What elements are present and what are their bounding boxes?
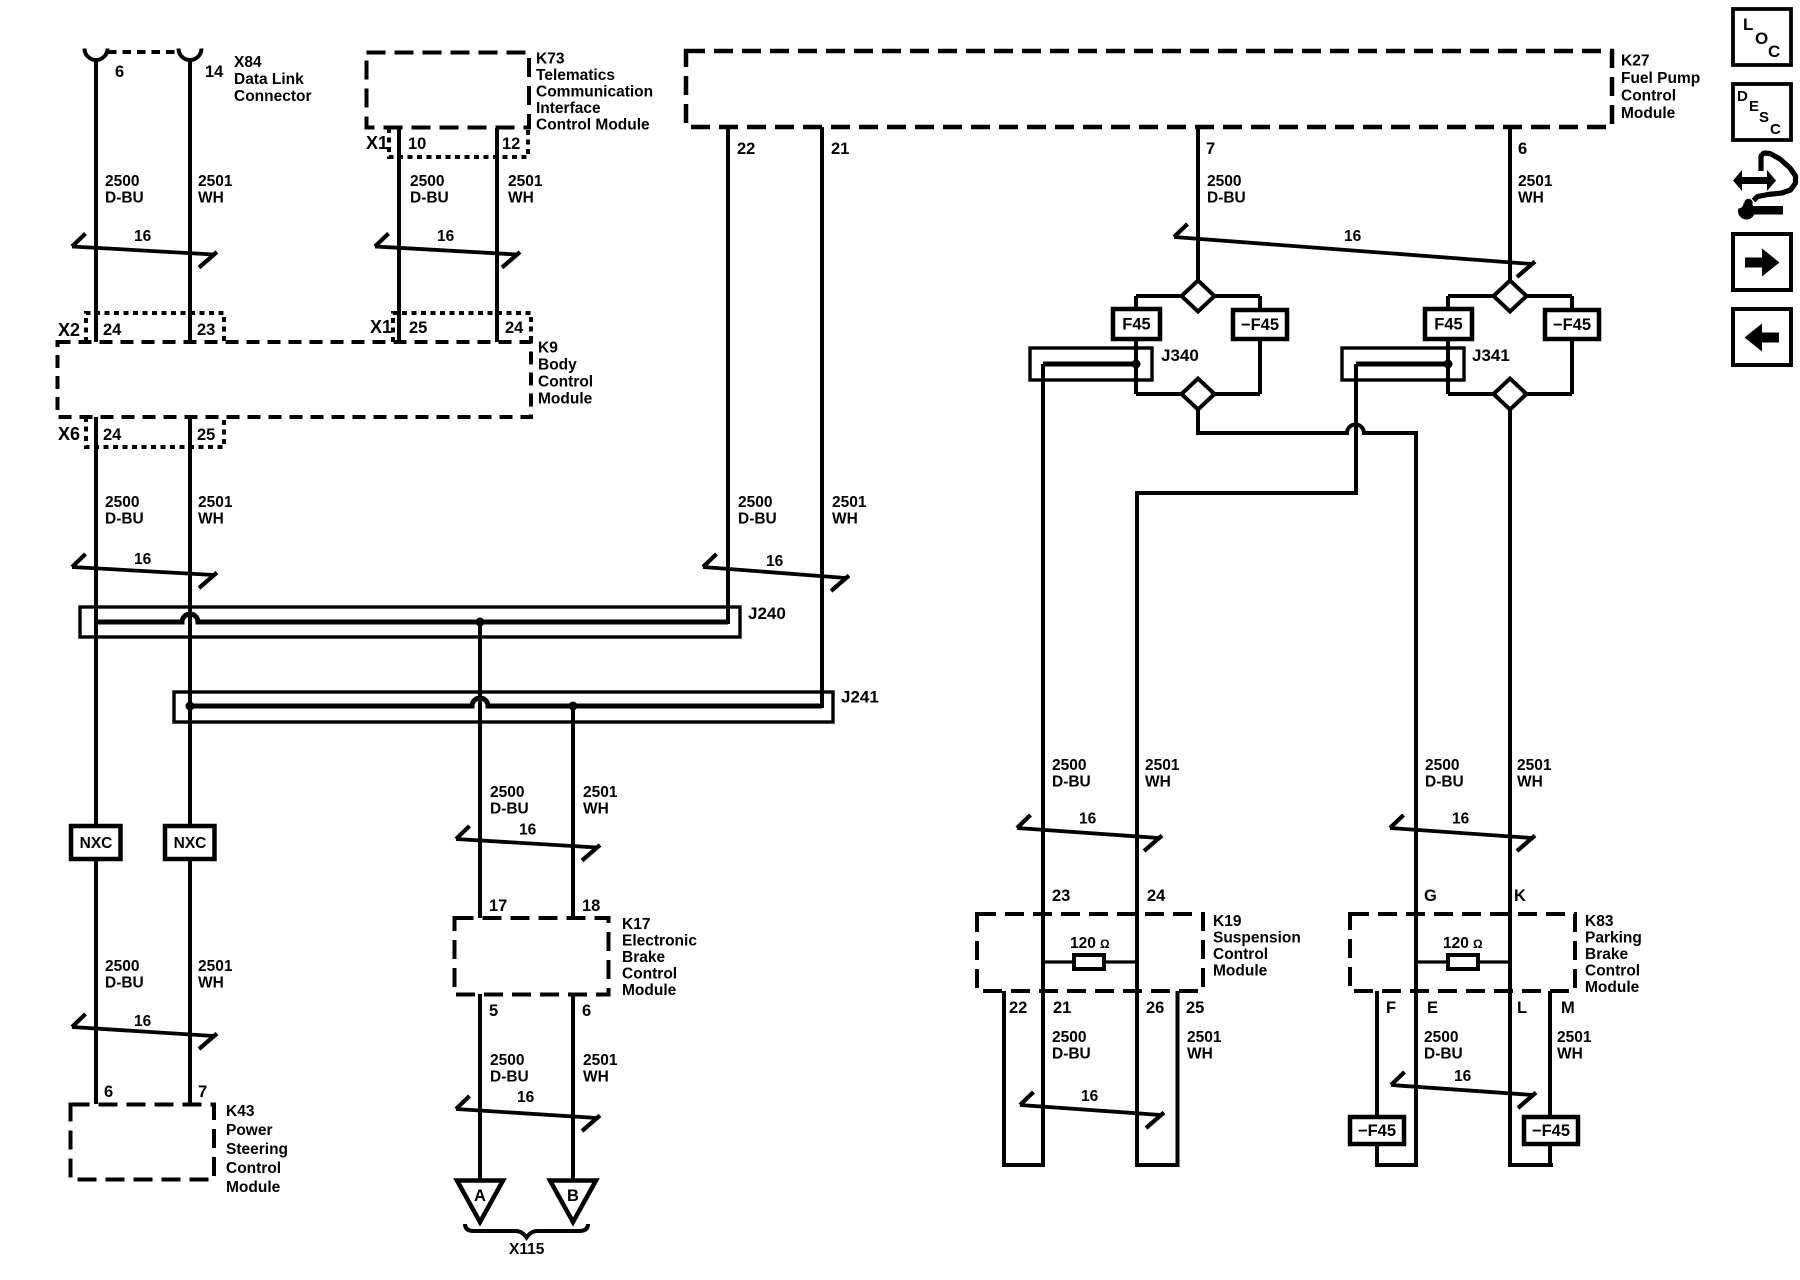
- wire 2500 D-BU X84-6 to K9 X2-24: [94, 61, 98, 342]
- svg-text:S: S: [1759, 109, 1769, 126]
- svg-text:2501: 2501: [1518, 173, 1553, 190]
- svg-text:2500: 2500: [490, 784, 524, 801]
- icon DESC: [1733, 84, 1791, 140]
- fuse F45: [1425, 309, 1472, 339]
- svg-text:17: 17: [489, 897, 507, 915]
- node diamond J341 bottom: [1494, 379, 1527, 410]
- svg-text:25: 25: [1186, 999, 1204, 1017]
- svg-text:2500: 2500: [105, 494, 139, 511]
- svg-text:A: A: [474, 1187, 486, 1205]
- gauge 16 marker: [1017, 811, 1162, 852]
- icon serial data communication: [1733, 153, 1796, 220]
- gauge 16 marker: [1390, 811, 1535, 852]
- svg-text:Interface: Interface: [536, 100, 601, 117]
- gauge 16 marker: [456, 1089, 600, 1131]
- resistor 120 ohm in K83: [1416, 935, 1510, 969]
- svg-text:K: K: [1514, 887, 1526, 905]
- svg-text:Telematics: Telematics: [536, 67, 615, 84]
- fuse -F45: [1545, 310, 1599, 339]
- svg-text:K43: K43: [226, 1103, 255, 1120]
- svg-text:Brake: Brake: [622, 949, 665, 966]
- icon arrow right: [1733, 234, 1791, 290]
- svg-text:F: F: [1386, 999, 1396, 1017]
- svg-text:Electronic: Electronic: [622, 933, 697, 950]
- svg-text:16: 16: [134, 228, 152, 245]
- svg-text:16: 16: [437, 228, 455, 245]
- svg-text:Steering: Steering: [226, 1141, 288, 1158]
- svg-text:Control: Control: [622, 966, 677, 983]
- svg-text:16: 16: [519, 822, 537, 839]
- module K19 Suspension Control Module: [977, 913, 1301, 991]
- module K17 Electronic Brake Control Module: [455, 916, 698, 999]
- label wire 2501 WH: [198, 494, 233, 528]
- svg-text:24: 24: [505, 319, 524, 337]
- wire K19-26 loop: [1135, 962, 1139, 1165]
- svg-text:Module: Module: [226, 1179, 281, 1196]
- svg-text:25: 25: [409, 319, 427, 337]
- svg-text:2501: 2501: [1187, 1029, 1222, 1046]
- svg-text:Module: Module: [1213, 963, 1268, 980]
- svg-text:WH: WH: [198, 190, 224, 207]
- svg-text:24: 24: [103, 426, 122, 444]
- svg-text:24: 24: [1147, 887, 1166, 905]
- wire stub K19-25: [1176, 991, 1180, 1165]
- svg-text:J240: J240: [748, 604, 786, 623]
- connector X115 brace: [465, 1224, 588, 1258]
- svg-text:WH: WH: [1187, 1046, 1213, 1063]
- svg-text:Data Link: Data Link: [234, 71, 304, 88]
- svg-text:2500: 2500: [1425, 757, 1459, 774]
- svg-text:WH: WH: [832, 511, 858, 528]
- connector X1 of K9: [370, 313, 531, 342]
- label wire 2501 WH: [583, 1052, 618, 1086]
- svg-text:2500: 2500: [738, 494, 772, 511]
- svg-text:WH: WH: [198, 975, 224, 992]
- splice pack J341 bus: [1342, 346, 1510, 380]
- svg-text:2501: 2501: [1517, 757, 1552, 774]
- gauge 16 marker: [375, 228, 520, 268]
- module K43 Power Steering Control Module: [71, 1103, 289, 1196]
- wire loop bottom F-E: [1375, 1163, 1418, 1167]
- label wire 2501 WH: [1518, 173, 1553, 207]
- svg-text:X1: X1: [366, 133, 388, 153]
- label wire 2500 D-BU: [1052, 1029, 1091, 1063]
- svg-text:WH: WH: [1145, 774, 1171, 791]
- in-line connector NXC on 2501 WH: [165, 826, 215, 859]
- label wire 2501 WH: [832, 494, 867, 528]
- fuse F45: [1113, 309, 1160, 339]
- svg-text:2500: 2500: [1052, 757, 1086, 774]
- svg-text:M: M: [1561, 999, 1575, 1017]
- gauge 16 marker: [72, 228, 217, 268]
- label wire 2501 WH: [198, 173, 233, 207]
- wire 2500 D-BU K17-5 to X115-A: [478, 994, 482, 1181]
- svg-text:G: G: [1424, 887, 1437, 905]
- svg-text:14: 14: [205, 63, 224, 81]
- svg-text:16: 16: [1454, 1068, 1472, 1085]
- svg-text:K9: K9: [538, 340, 558, 357]
- wire below -F45 right: [1548, 1144, 1552, 1165]
- wire loop bottom 22-21: [1002, 1163, 1045, 1167]
- svg-text:Ω: Ω: [1473, 937, 1483, 951]
- node diamond J340 bottom: [1182, 379, 1215, 410]
- svg-text:16: 16: [134, 1013, 152, 1030]
- svg-text:D-BU: D-BU: [1052, 1046, 1091, 1063]
- svg-text:6: 6: [115, 63, 124, 81]
- svg-text:X2: X2: [58, 320, 80, 340]
- svg-text:16: 16: [134, 551, 152, 568]
- svg-text:22: 22: [737, 140, 755, 158]
- svg-text:Control: Control: [1621, 88, 1676, 105]
- svg-text:21: 21: [831, 140, 849, 158]
- svg-text:6: 6: [1518, 140, 1527, 158]
- connector X2 of K9: [58, 313, 224, 342]
- splice pack J340 bus: [1030, 346, 1199, 380]
- module K83 Parking Brake Control Module: [1350, 913, 1642, 996]
- svg-text:−F45: −F45: [1532, 1122, 1570, 1140]
- svg-text:2501: 2501: [198, 494, 233, 511]
- svg-text:F45: F45: [1122, 316, 1150, 334]
- svg-text:24: 24: [103, 321, 122, 339]
- wire K19-21 loop: [1041, 962, 1045, 1165]
- svg-text:L: L: [1517, 999, 1527, 1017]
- gauge 16 marker: [703, 553, 849, 591]
- svg-text:Module: Module: [622, 982, 677, 999]
- label wire 2500 D-BU: [490, 784, 529, 818]
- label wire 2501 WH: [508, 173, 543, 207]
- fuse -F45 left: [1350, 1117, 1404, 1144]
- svg-text:2500: 2500: [105, 173, 139, 190]
- svg-text:C: C: [1770, 121, 1781, 138]
- svg-text:Ω: Ω: [1100, 937, 1110, 951]
- svg-text:E: E: [1749, 98, 1759, 115]
- svg-text:X115: X115: [509, 1241, 545, 1258]
- svg-text:23: 23: [1052, 887, 1070, 905]
- svg-text:−F45: −F45: [1241, 316, 1279, 334]
- splice J341 ring with fuse F45: [1448, 296, 1572, 394]
- wire stub K83-M: [1548, 991, 1552, 1117]
- wire 2500 D-BU K9 X6-24 to K43-6: [94, 417, 98, 826]
- label wire 2500 D-BU: [105, 958, 144, 992]
- svg-text:X6: X6: [58, 424, 80, 444]
- wire 2501 WH J241 to K17-18: [571, 706, 575, 918]
- svg-text:2500: 2500: [1207, 173, 1241, 190]
- svg-text:2500: 2500: [1052, 1029, 1086, 1046]
- svg-text:−F45: −F45: [1553, 316, 1591, 334]
- wire stub K19-22: [1002, 991, 1006, 1165]
- svg-text:O: O: [1755, 29, 1768, 48]
- svg-text:K73: K73: [536, 51, 565, 68]
- wire below -F45 left: [1375, 1144, 1379, 1165]
- svg-text:6: 6: [104, 1083, 113, 1101]
- svg-text:16: 16: [1452, 811, 1470, 828]
- module K73 Telematics Communication Interface Control Module: [367, 51, 654, 134]
- svg-text:L: L: [1743, 15, 1753, 34]
- svg-text:Module: Module: [1585, 979, 1640, 996]
- module K27 Fuel Pump Control Module: [686, 51, 1700, 127]
- wire 2501 WH J341 to K83-K: [1508, 409, 1512, 962]
- wire 2500 D-BU K27-7 to J340: [1196, 127, 1200, 282]
- connector X1 of K73: [366, 128, 528, 157]
- svg-text:WH: WH: [583, 1069, 609, 1086]
- svg-text:22: 22: [1009, 999, 1027, 1017]
- label wire 2500 D-BU: [1207, 173, 1246, 207]
- wire stub K83-F: [1375, 991, 1379, 1117]
- connector X84 Data Link Connector: [85, 49, 312, 106]
- svg-text:2500: 2500: [105, 958, 139, 975]
- gauge 16 marker: [72, 1013, 217, 1049]
- svg-text:WH: WH: [583, 801, 609, 818]
- svg-text:12: 12: [502, 135, 520, 153]
- label wire 2500 D-BU: [410, 173, 449, 207]
- terminal A of X115: [457, 1181, 503, 1223]
- svg-text:2500: 2500: [1424, 1029, 1458, 1046]
- svg-text:Module: Module: [538, 391, 593, 408]
- svg-text:21: 21: [1053, 999, 1071, 1017]
- svg-text:Connector: Connector: [234, 88, 312, 105]
- in-line connector NXC on 2500 D-BU: [71, 826, 121, 859]
- gauge 16 marker: [1391, 1068, 1536, 1108]
- svg-text:Control Module: Control Module: [536, 117, 650, 134]
- svg-text:2501: 2501: [583, 1052, 618, 1069]
- svg-text:X1: X1: [370, 317, 392, 337]
- svg-text:D-BU: D-BU: [105, 975, 144, 992]
- svg-text:2501: 2501: [832, 494, 867, 511]
- fuse -F45 right: [1524, 1117, 1578, 1144]
- label wire 2501 WH: [1145, 757, 1180, 791]
- svg-text:7: 7: [1206, 140, 1215, 158]
- svg-text:2501: 2501: [1557, 1029, 1592, 1046]
- svg-text:23: 23: [197, 321, 215, 339]
- svg-text:C: C: [1768, 42, 1780, 61]
- gauge 16 marker: [1020, 1088, 1164, 1128]
- svg-text:2501: 2501: [198, 173, 233, 190]
- svg-text:6: 6: [582, 1002, 591, 1020]
- connector X6 of K9: [58, 417, 224, 447]
- svg-text:WH: WH: [508, 190, 534, 207]
- svg-text:D-BU: D-BU: [105, 511, 144, 528]
- svg-text:K19: K19: [1213, 913, 1242, 930]
- gauge 16 marker: [1174, 224, 1535, 277]
- label wire 2501 WH: [1187, 1029, 1222, 1063]
- svg-text:NXC: NXC: [80, 835, 113, 852]
- label wire 2500 D-BU: [105, 494, 144, 528]
- svg-text:16: 16: [1081, 1088, 1099, 1105]
- node diamond J341 top: [1494, 281, 1527, 312]
- svg-text:D-BU: D-BU: [1424, 1046, 1463, 1063]
- svg-text:Body: Body: [538, 357, 577, 374]
- wire 2500 D-BU J340 bus to K19-23: [1041, 364, 1045, 962]
- svg-text:16: 16: [1344, 228, 1362, 245]
- svg-text:E: E: [1427, 999, 1438, 1017]
- wire K83-L to loop: [1508, 962, 1512, 1165]
- icon arrow left: [1733, 309, 1791, 365]
- splice J340 ring with fuse F45: [1136, 296, 1260, 394]
- svg-text:D-BU: D-BU: [738, 511, 777, 528]
- svg-text:Module: Module: [1621, 105, 1676, 122]
- gauge 16 marker: [72, 551, 217, 588]
- wire K83-E to loop: [1414, 962, 1418, 1165]
- svg-text:10: 10: [408, 135, 426, 153]
- label wire 2501 WH: [583, 784, 618, 818]
- label wire 2501 WH: [198, 958, 233, 992]
- svg-text:J340: J340: [1161, 346, 1199, 365]
- resistor 120 ohm in K19: [1043, 935, 1137, 969]
- svg-text:120: 120: [1070, 935, 1096, 952]
- svg-text:WH: WH: [198, 511, 224, 528]
- svg-text:16: 16: [517, 1089, 535, 1106]
- svg-text:5: 5: [489, 1002, 498, 1020]
- svg-text:Parking: Parking: [1585, 930, 1642, 947]
- svg-text:J341: J341: [1472, 346, 1510, 365]
- wire 2500 D-BU K73 X1-10 to K9 X1-25: [397, 128, 401, 342]
- svg-text:Suspension: Suspension: [1213, 930, 1301, 947]
- wire 2501 WH K9 X6-25 to K43-7: [188, 417, 192, 826]
- svg-text:D-BU: D-BU: [490, 801, 529, 818]
- wire 2500 D-BU J340 to K83-G: [1198, 409, 1416, 962]
- svg-text:D-BU: D-BU: [1425, 774, 1464, 791]
- label wire 2501 WH: [1517, 757, 1552, 791]
- wire 2500 D-BU K27-22 to J240: [726, 127, 730, 624]
- wire loop bottom L-M: [1508, 1163, 1553, 1167]
- node diamond J340 top: [1182, 281, 1215, 312]
- svg-text:Control: Control: [1213, 946, 1268, 963]
- svg-text:Control: Control: [226, 1160, 281, 1177]
- label wire 2500 D-BU: [490, 1052, 529, 1086]
- svg-text:K27: K27: [1621, 53, 1649, 70]
- svg-text:X84: X84: [234, 54, 262, 71]
- svg-text:WH: WH: [1517, 774, 1543, 791]
- wire 2501 WH K73 X1-12 to K9 X1-24: [495, 128, 499, 342]
- wire 2501 WH K17-6 to X115-B: [571, 994, 575, 1181]
- wire 2501 WH J341 bus to K19-24: [1137, 364, 1356, 962]
- label wire 2500 D-BU: [105, 173, 144, 207]
- wire 2501 WH K27-6 to J341: [1508, 127, 1512, 282]
- icon LOC: [1733, 9, 1791, 65]
- svg-text:Fuel Pump: Fuel Pump: [1621, 70, 1700, 87]
- svg-text:D-BU: D-BU: [1207, 190, 1246, 207]
- svg-text:D-BU: D-BU: [490, 1069, 529, 1086]
- wire loop bottom 26-25: [1135, 1163, 1180, 1167]
- module K9 Body Control Module: [58, 340, 594, 418]
- svg-text:18: 18: [582, 897, 600, 915]
- svg-text:Communication: Communication: [536, 84, 653, 101]
- svg-text:−F45: −F45: [1358, 1122, 1396, 1140]
- label wire 2500 D-BU: [1424, 1029, 1463, 1063]
- svg-text:2500: 2500: [490, 1052, 524, 1069]
- svg-text:Brake: Brake: [1585, 946, 1628, 963]
- svg-text:2501: 2501: [1145, 757, 1180, 774]
- fuse -F45: [1233, 310, 1287, 339]
- svg-text:D-BU: D-BU: [1052, 774, 1091, 791]
- svg-text:2501: 2501: [508, 173, 543, 190]
- svg-text:K83: K83: [1585, 913, 1614, 930]
- svg-text:2500: 2500: [410, 173, 444, 190]
- terminal B of X115: [550, 1181, 596, 1223]
- svg-text:120: 120: [1443, 935, 1469, 952]
- svg-text:K17: K17: [622, 916, 650, 933]
- svg-text:7: 7: [198, 1083, 207, 1101]
- svg-text:D-BU: D-BU: [410, 190, 449, 207]
- svg-text:26: 26: [1146, 999, 1164, 1017]
- wire 2501 WH K27-21 to J241: [820, 127, 824, 708]
- label wire 2500 D-BU: [1425, 757, 1464, 791]
- svg-text:Control: Control: [1585, 963, 1640, 980]
- label wire 2500 D-BU: [1052, 757, 1091, 791]
- svg-text:Control: Control: [538, 374, 593, 391]
- svg-text:WH: WH: [1518, 190, 1544, 207]
- splice pack J240: [80, 604, 786, 637]
- label wire 2500 D-BU: [738, 494, 777, 528]
- svg-text:B: B: [567, 1187, 579, 1205]
- wire 2500 D-BU J240 to K17-17: [478, 622, 482, 918]
- svg-text:Power: Power: [226, 1122, 273, 1139]
- splice pack J241: [174, 688, 879, 723]
- svg-text:16: 16: [1079, 811, 1097, 828]
- svg-text:16: 16: [766, 553, 784, 570]
- wire 2501 WH X84-14 to K9 X2-23: [188, 61, 192, 342]
- svg-text:J241: J241: [841, 688, 879, 707]
- svg-text:D-BU: D-BU: [105, 190, 144, 207]
- svg-text:WH: WH: [1557, 1046, 1583, 1063]
- gauge 16 marker: [456, 822, 600, 861]
- svg-text:25: 25: [197, 426, 215, 444]
- label wire 2501 WH: [1557, 1029, 1592, 1063]
- svg-text:D: D: [1737, 88, 1748, 105]
- svg-text:2501: 2501: [583, 784, 618, 801]
- svg-text:NXC: NXC: [174, 835, 207, 852]
- svg-text:2501: 2501: [198, 958, 233, 975]
- svg-text:F45: F45: [1434, 316, 1462, 334]
